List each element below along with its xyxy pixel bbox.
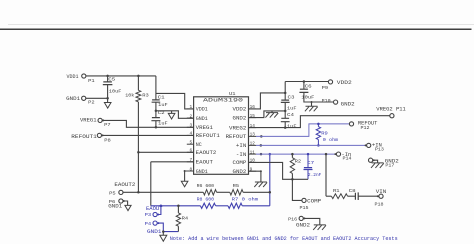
svg-text:VIN: VIN	[376, 189, 387, 195]
junction gnd/C3C4	[284, 110, 287, 113]
wire P17 to ground	[373, 160, 378, 163]
svg-text:R2: R2	[295, 159, 302, 165]
resistor R1	[326, 195, 331, 197]
pin 13 REFOUT stub	[249, 135, 257, 137]
svg-text:P7: P7	[104, 122, 111, 128]
wire R8-R7 blue	[216, 205, 228, 207]
ground GND1 branch to pin 2	[156, 111, 194, 119]
wire C2 to VREG1 row	[155, 121, 157, 128]
wire C3-C4	[284, 102, 286, 118]
svg-text:-IN: -IN	[236, 152, 246, 158]
wire R6-R5	[217, 191, 230, 193]
dot pin12	[260, 144, 263, 147]
svg-text:12: 12	[250, 142, 256, 147]
svg-text:EAOUT: EAOUT	[146, 206, 163, 212]
svg-text:GND1: GND1	[66, 96, 80, 102]
wire to pin 1	[156, 93, 194, 109]
svg-text:P1: P1	[88, 78, 95, 84]
svg-text:P16: P16	[288, 216, 297, 222]
wire -IN down to R1	[325, 154, 327, 196]
svg-text:C2: C2	[158, 110, 165, 116]
wire C6 to P10	[304, 92, 334, 102]
svg-text:REFOUT1: REFOUT1	[196, 133, 220, 139]
svg-text:1uF: 1uF	[287, 123, 297, 129]
pin P1 VDD1	[82, 74, 86, 78]
pin 12 +IN stub	[249, 144, 257, 146]
resistor R8 600 blue	[200, 203, 215, 208]
pin P2 GND1	[82, 96, 86, 100]
svg-text:VDD1: VDD1	[196, 107, 208, 113]
pin 2 GND1 stub	[187, 117, 194, 119]
pin 11 -IN stub	[249, 153, 257, 155]
capacitor C1	[152, 100, 161, 102]
ground GND2 P17	[371, 163, 384, 168]
pin P13 +IN	[367, 143, 371, 147]
svg-text:C4: C4	[287, 112, 294, 118]
junction C6/rail	[303, 80, 306, 83]
svg-text:GND2: GND2	[296, 223, 310, 229]
wire R5 to -IN riser	[243, 191, 270, 193]
capacitor C5	[107, 76, 109, 82]
ground GND1 below C5	[104, 103, 111, 109]
svg-text:R5: R5	[233, 183, 240, 189]
pin P17 GND2	[369, 158, 373, 162]
wire pin 8 GND1	[185, 171, 194, 181]
wire VREG1 to pin 3	[102, 120, 193, 127]
svg-text:ADuM3190: ADuM3190	[203, 96, 244, 103]
svg-text:P9: P9	[322, 85, 329, 91]
pin P4 GND1	[153, 221, 157, 225]
svg-text:VDD1: VDD1	[67, 74, 79, 80]
pin 15 GND2 stub	[249, 117, 257, 119]
svg-text:1uF: 1uF	[158, 102, 168, 108]
junction row/riser	[269, 191, 272, 194]
junction R3/rail	[137, 75, 140, 78]
wire pin16 VDD2	[249, 93, 286, 109]
junction P4/R4	[162, 230, 165, 233]
pin P3 EAOUT	[153, 212, 157, 216]
capacitor C6	[303, 82, 305, 89]
svg-text:R7 0 ohm: R7 0 ohm	[232, 197, 259, 203]
resistor R4	[177, 206, 179, 213]
resistor R6 600	[203, 190, 216, 195]
svg-text:0 ohm: 0 ohm	[323, 137, 339, 143]
svg-text:COMP: COMP	[233, 160, 247, 166]
ground GND1 mid	[168, 113, 175, 119]
wire -IN riser blue	[269, 154, 271, 206]
wire EAOUT blue bus	[151, 205, 201, 207]
svg-text:P15: P15	[300, 205, 309, 211]
svg-text:P10: P10	[322, 98, 331, 104]
junction pin6 row	[137, 151, 140, 154]
svg-text:EAOUT: EAOUT	[196, 160, 213, 166]
svg-text:P13: P13	[375, 147, 384, 153]
pin P14 -IN	[336, 152, 340, 156]
capacitor C8	[348, 195, 356, 197]
junction R9 top	[317, 123, 320, 126]
svg-text:COMP: COMP	[307, 198, 321, 204]
svg-text:GND1: GND1	[196, 169, 208, 175]
pin P5 EAOUT2	[119, 190, 123, 194]
junction C5/rail	[106, 75, 109, 78]
frame border line	[0, 28, 472, 30]
resistor R5	[230, 190, 243, 195]
capacitor C4	[281, 118, 290, 121]
svg-text:P18: P18	[375, 202, 384, 208]
wire P16 to ground	[303, 218, 320, 225]
ground GND1 P6	[125, 205, 131, 210]
junction R2 bottom	[291, 178, 294, 181]
svg-text:REFOUT1: REFOUT1	[71, 134, 97, 140]
pin 5 NC stub	[187, 143, 194, 145]
wire P2 to C5 gnd	[86, 97, 108, 99]
pin 1 VDD1 stub	[187, 108, 194, 110]
svg-text:EAOUT2: EAOUT2	[114, 182, 135, 188]
svg-text:5: 5	[190, 141, 193, 146]
wire VDD2 rail	[285, 81, 328, 83]
svg-text:P17: P17	[385, 162, 394, 168]
wire pin9 GND2	[249, 171, 261, 182]
junction C4/VREG2	[284, 126, 287, 129]
pin 8 GND1 stub	[187, 170, 194, 172]
pin 6 EAOUT2 stub	[187, 151, 194, 153]
svg-text:R6 600: R6 600	[197, 183, 215, 189]
svg-text:R1: R1	[333, 188, 340, 194]
svg-text:11: 11	[250, 150, 256, 155]
svg-text:GND2: GND2	[233, 169, 247, 175]
junction riser/-IN	[269, 153, 272, 156]
dot pin13	[260, 135, 263, 138]
svg-text:REFOUT: REFOUT	[226, 134, 247, 140]
wire VDD2 down to C3	[284, 82, 286, 101]
pin P10 GND2	[334, 100, 338, 104]
wire P4 to ground and R4	[157, 223, 178, 232]
svg-text:C1: C1	[158, 94, 165, 100]
wire COMP net	[249, 162, 309, 179]
tick P7	[102, 119, 104, 121]
svg-text:GND2: GND2	[341, 102, 355, 108]
svg-text:P5: P5	[109, 190, 116, 196]
pin P8 REFOUT1	[97, 133, 101, 137]
svg-text:C7: C7	[307, 160, 314, 166]
ground GND2 mid	[265, 113, 278, 118]
svg-text:C8: C8	[349, 188, 356, 194]
pin 10 COMP stub	[249, 161, 257, 163]
pin P15 COMP	[302, 198, 306, 202]
pin P18 VIN	[379, 194, 383, 198]
svg-text:VDD2: VDD2	[337, 80, 352, 86]
pin P16 GND2	[299, 216, 303, 220]
svg-text:NC: NC	[196, 142, 202, 148]
svg-text:P12: P12	[361, 125, 370, 131]
junction gnd branch	[155, 110, 158, 113]
junction C7 top	[307, 153, 310, 156]
junction pin16/C3	[284, 92, 287, 95]
wire pin15 GND2	[249, 111, 286, 118]
svg-text:R3: R3	[142, 92, 149, 98]
svg-text:P2: P2	[88, 99, 95, 105]
junction -IN/R1	[325, 153, 328, 156]
svg-text:P8: P8	[104, 137, 111, 143]
resistor R3 10k	[137, 76, 139, 90]
svg-text:C6: C6	[305, 83, 312, 89]
ground GND2 pin9	[254, 182, 267, 187]
pin P9 VDD2	[328, 80, 332, 84]
wire pin 6 EAOUT2	[138, 151, 193, 153]
frame faint upper line	[8, 23, 474, 25]
dot pin11	[260, 153, 263, 156]
capacitor C3	[281, 100, 290, 102]
wire C1-C2	[155, 102, 157, 117]
stub C6 ground	[311, 102, 313, 106]
wire P3 hook	[157, 206, 161, 215]
junction P3/bus	[160, 205, 163, 208]
wire C4 to VREG2 row	[284, 122, 286, 128]
ground GND1 note	[160, 235, 167, 241]
svg-text:C3: C3	[288, 94, 295, 100]
junction R9/+IN	[317, 144, 320, 147]
pin 7 EAOUT stub	[187, 161, 194, 163]
pin P11 VREG2	[390, 114, 394, 118]
svg-text:VREG1: VREG1	[196, 125, 213, 131]
svg-text:+IN: +IN	[236, 143, 246, 149]
svg-text:GND1: GND1	[196, 116, 208, 122]
wire R7 to riser blue	[242, 205, 270, 207]
svg-text:10uF: 10uF	[109, 88, 122, 94]
VDD1 rail wire	[86, 75, 156, 77]
svg-text:VREG1: VREG1	[80, 117, 97, 123]
capacitor C2	[151, 118, 160, 121]
pin 4 REFOUT1 stub	[187, 134, 194, 136]
svg-text:EAOUT2: EAOUT2	[196, 150, 217, 156]
ground GND1 pin8	[181, 181, 188, 187]
ground GND2 P16	[313, 225, 326, 230]
svg-text:P3: P3	[145, 212, 152, 218]
svg-text:13: 13	[250, 133, 256, 138]
op-amp U1 ADuM3190 body	[194, 97, 249, 175]
wire VREG2 to P11	[249, 116, 390, 128]
wire R3 down to EAOUT2 row	[137, 102, 139, 192]
svg-text:R8 600: R8 600	[197, 197, 215, 203]
wire P6 to ground	[123, 201, 128, 205]
svg-text:VDD2: VDD2	[233, 107, 247, 113]
wire pin 7 EAOUT down	[151, 162, 194, 206]
stub mid ground	[271, 111, 273, 113]
svg-text:C5: C5	[108, 77, 115, 83]
pin P7 VREG1	[98, 118, 102, 122]
svg-text:P14: P14	[343, 156, 352, 162]
junction C2/VREG1	[155, 126, 158, 129]
ground GND2 C6	[305, 106, 318, 111]
svg-text:VREG2: VREG2	[229, 125, 246, 131]
pin P6 GND1	[119, 199, 123, 203]
svg-text:R4: R4	[182, 215, 189, 221]
pin 16 VDD2 stub	[249, 108, 257, 110]
junction R3/row	[137, 191, 140, 194]
svg-text:GND2: GND2	[233, 115, 247, 121]
wire COMP to P15	[292, 179, 302, 200]
junction R2 top	[291, 153, 294, 156]
wire EAOUT2 row	[123, 191, 203, 193]
svg-text:GND1: GND1	[108, 204, 122, 210]
svg-text:2.2nF: 2.2nF	[308, 172, 322, 178]
svg-text:1uF: 1uF	[287, 106, 297, 112]
svg-text:10k: 10k	[125, 92, 134, 98]
pin 9 GND2 stub	[249, 170, 257, 172]
wire VDD1 rail down to C1 and pin1	[155, 76, 157, 100]
junction P2/C5	[106, 97, 109, 100]
svg-text:R9: R9	[321, 130, 328, 136]
svg-text:GND1: GND1	[147, 229, 162, 235]
pin 3 VREG1 stub	[187, 126, 194, 128]
svg-text:VREG2 P11: VREG2 P11	[376, 106, 406, 112]
pin 14 VREG2 stub	[249, 127, 257, 129]
svg-text:1uF: 1uF	[158, 120, 168, 126]
junction R4/bus	[177, 205, 180, 208]
svg-text:Note: Add a wire between GND1: Note: Add a wire between GND1 and GND2 f…	[170, 236, 398, 242]
tick P8	[102, 134, 104, 136]
wire REFOUT1 to pin 4	[102, 134, 194, 136]
pin P12 REFOUT	[349, 122, 353, 126]
resistor R7 0 ohm blue	[228, 203, 242, 208]
svg-text:P4: P4	[145, 221, 152, 227]
